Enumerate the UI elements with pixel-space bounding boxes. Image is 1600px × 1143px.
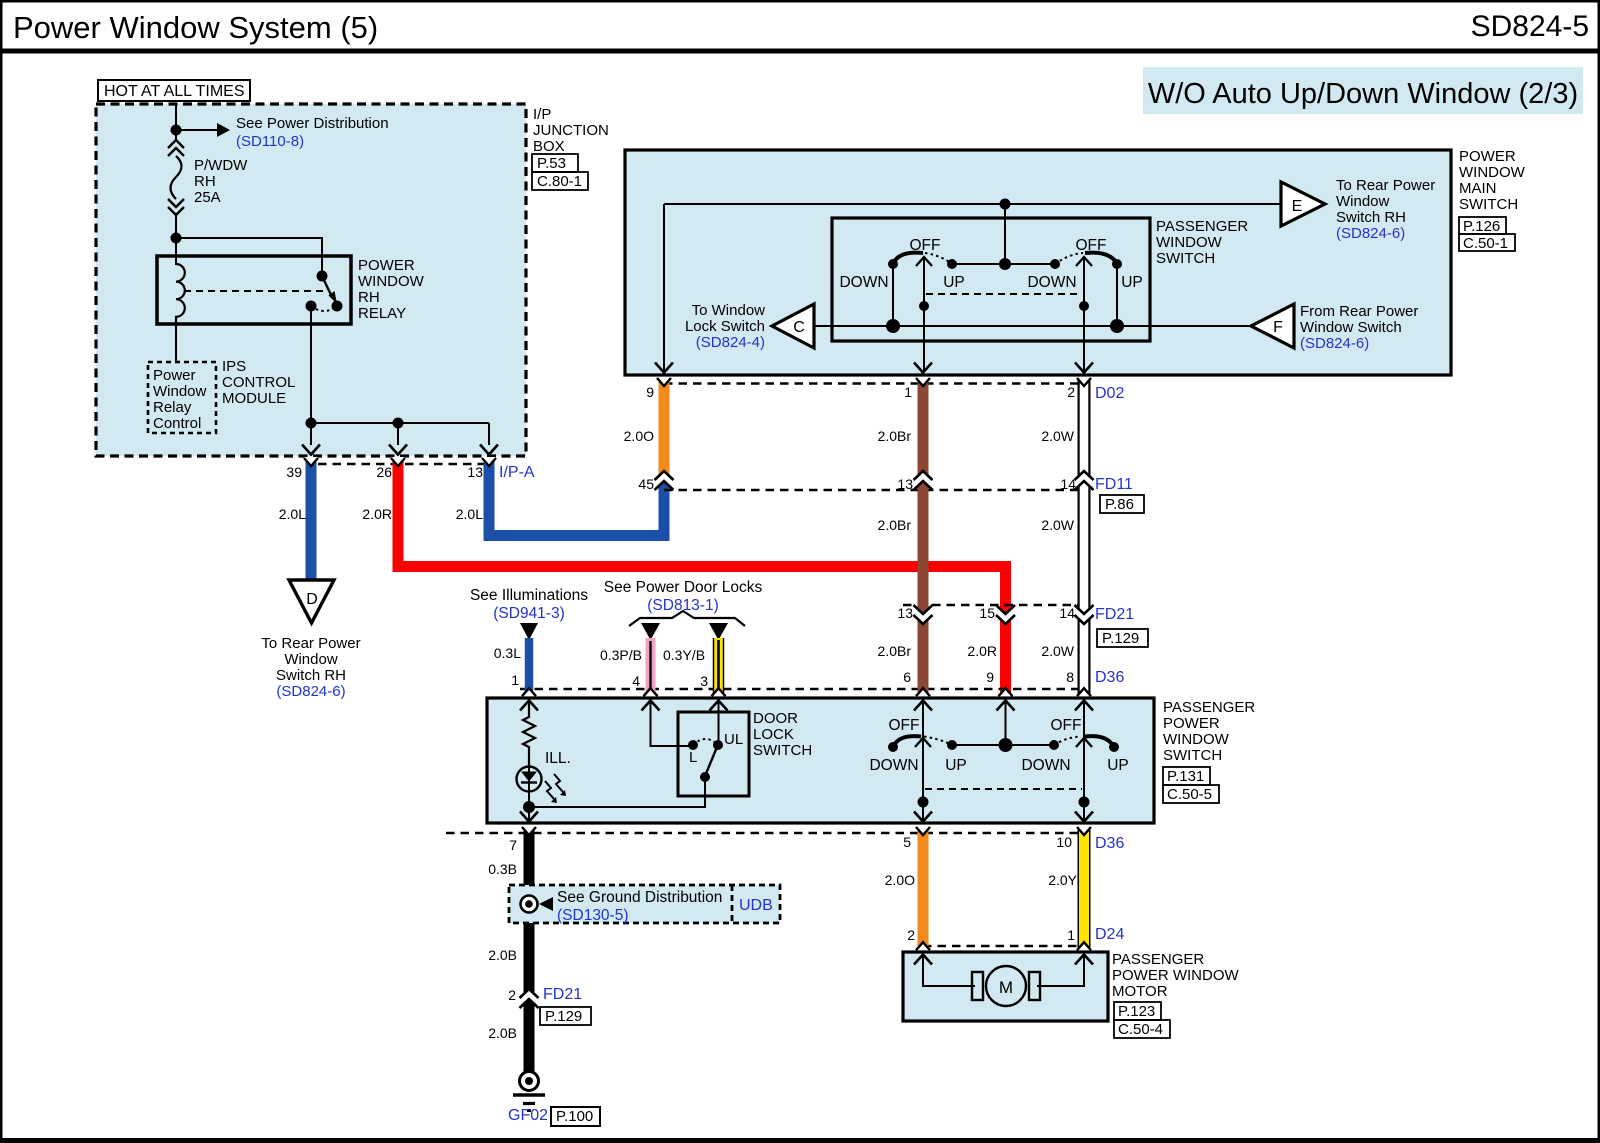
svg-text:PASSENGER: PASSENGER <box>1156 218 1248 235</box>
D02 exit notches <box>657 377 1091 386</box>
svg-text:1: 1 <box>511 672 519 688</box>
svg-text:RELAY: RELAY <box>358 305 406 322</box>
D36 upper entry notches <box>916 688 1091 697</box>
resistor (illumination dropping) <box>523 700 535 766</box>
lower box exit arrows pins 7 5 10 <box>520 812 1093 822</box>
wire 2.0Br pin1 (brown) <box>918 377 929 698</box>
svg-text:2.0Br: 2.0Br <box>878 517 912 533</box>
svg-text:C: C <box>793 319 805 336</box>
svg-text:13: 13 <box>897 605 913 621</box>
connector D02 dashed line <box>664 382 1084 384</box>
svg-text:2: 2 <box>907 927 915 943</box>
svg-text:(SD824-6): (SD824-6) <box>1300 335 1369 352</box>
svg-text:UDB: UDB <box>739 897 773 914</box>
connector I/P-A dashed line <box>318 463 494 465</box>
svg-text:MAIN: MAIN <box>1459 180 1497 197</box>
svg-text:WINDOW: WINDOW <box>1459 164 1526 181</box>
svg-text:0.3L: 0.3L <box>494 645 521 661</box>
svg-text:D02: D02 <box>1095 385 1124 402</box>
C-F through wire <box>814 325 1251 327</box>
svg-text:P.126: P.126 <box>1463 218 1500 235</box>
power window main switch box <box>625 150 1451 375</box>
wire from box top to fuse <box>175 104 177 140</box>
svg-text:POWER: POWER <box>358 257 415 274</box>
svg-text:LOCK: LOCK <box>753 726 794 743</box>
svg-text:See Power Door Locks: See Power Door Locks <box>604 579 763 596</box>
svg-text:To Window: To Window <box>692 302 766 319</box>
svg-text:Window Switch: Window Switch <box>1300 319 1402 336</box>
svg-text:1: 1 <box>1067 927 1075 943</box>
I/P junction box (dashed) <box>96 104 526 456</box>
svg-text:To Rear Power: To Rear Power <box>1336 177 1435 194</box>
see power distribution arrow <box>176 115 389 150</box>
svg-text:13: 13 <box>467 464 483 480</box>
svg-text:From Rear Power: From Rear Power <box>1300 303 1418 320</box>
entry arrows into switch box <box>520 701 1093 711</box>
svg-text:JUNCTION: JUNCTION <box>533 122 609 139</box>
svg-text:Switch RH: Switch RH <box>276 667 346 684</box>
notch at pin39 <box>304 457 318 466</box>
svg-text:2.0L: 2.0L <box>456 506 483 522</box>
svg-text:P.100: P.100 <box>556 1108 593 1125</box>
svg-text:0.3P/B: 0.3P/B <box>600 647 642 663</box>
svg-text:POWER: POWER <box>1459 148 1516 165</box>
svg-text:See Power Distribution: See Power Distribution <box>236 115 389 132</box>
motor entry chevron notches <box>916 942 1091 951</box>
svg-text:15: 15 <box>979 605 995 621</box>
svg-text:25A: 25A <box>194 189 221 206</box>
svg-text:OFF: OFF <box>910 237 941 254</box>
svg-text:P.86: P.86 <box>1105 496 1134 513</box>
connector D36 lower dashed line <box>446 832 1084 834</box>
svg-text:MOTOR: MOTOR <box>1112 983 1168 1000</box>
svg-text:(SD110-8): (SD110-8) <box>236 133 304 150</box>
svg-text:2.0W: 2.0W <box>1041 428 1074 444</box>
svg-text:7: 7 <box>509 837 517 853</box>
wire relay switch to outputs <box>311 306 489 445</box>
svg-text:0.3B: 0.3B <box>488 861 517 877</box>
door lock switch labels <box>689 710 812 766</box>
svg-text:1: 1 <box>904 384 912 400</box>
svg-text:L: L <box>689 749 697 766</box>
svg-text:WINDOW: WINDOW <box>358 273 425 290</box>
svg-text:CONTROL: CONTROL <box>222 374 295 391</box>
svg-text:UP: UP <box>945 757 967 774</box>
motor entry arrows <box>914 955 1093 965</box>
svg-text:DOWN: DOWN <box>1021 757 1070 774</box>
svg-text:P.53: P.53 <box>537 155 566 172</box>
fuse P/WDW RH 25A <box>168 140 248 215</box>
svg-text:UP: UP <box>943 274 965 291</box>
svg-text:UP: UP <box>1107 757 1129 774</box>
wire fuse to relay <box>175 215 177 265</box>
svg-text:(SD824-6): (SD824-6) <box>1336 225 1405 242</box>
svg-text:2.0L: 2.0L <box>279 506 306 522</box>
svg-text:2.0O: 2.0O <box>624 428 654 444</box>
svg-text:C.50-4: C.50-4 <box>1118 1021 1163 1038</box>
svg-text:9: 9 <box>986 669 994 685</box>
node junction dots on output bus <box>306 418 404 429</box>
svg-text:UP: UP <box>1121 274 1143 291</box>
svg-text:FD21: FD21 <box>543 986 582 1003</box>
svg-text:See Illuminations: See Illuminations <box>470 587 588 604</box>
wire labels between FD11 and FD21 <box>878 517 1075 533</box>
svg-text:(SD130-5): (SD130-5) <box>557 907 629 924</box>
svg-text:2.0B: 2.0B <box>488 947 517 963</box>
svg-text:OFF: OFF <box>1076 237 1107 254</box>
svg-text:2: 2 <box>508 987 516 1003</box>
svg-text:D36: D36 <box>1095 835 1124 852</box>
svg-text:PASSENGER: PASSENGER <box>1163 699 1255 716</box>
svg-text:RH: RH <box>194 173 216 190</box>
relay U1 box POWER WINDOW RH RELAY <box>157 256 425 324</box>
svg-text:F: F <box>1273 319 1283 336</box>
connector FD21 dashed line <box>903 604 1084 606</box>
svg-text:SWITCH: SWITCH <box>1163 747 1222 764</box>
connector FD11 dashed line <box>664 489 1084 491</box>
svg-text:Control: Control <box>153 415 201 432</box>
FD21 inline connector on black wire <box>488 947 591 1041</box>
passenger power window motor box <box>903 952 1108 1021</box>
svg-text:P.129: P.129 <box>1102 630 1139 647</box>
svg-text:13: 13 <box>897 476 913 492</box>
svg-text:2.0Y: 2.0Y <box>1048 872 1077 888</box>
connector F triangle from rear power window switch <box>1251 303 1418 352</box>
FD21 labels <box>878 605 1148 659</box>
svg-text:To Rear Power: To Rear Power <box>261 635 360 652</box>
D02 labels <box>624 384 1125 444</box>
svg-text:5: 5 <box>903 834 911 850</box>
svg-text:OFF: OFF <box>889 717 920 734</box>
svg-text:9: 9 <box>646 384 654 400</box>
main box exit arrows pins 9 1 2 <box>655 363 1093 373</box>
ground GF02 <box>508 1072 600 1127</box>
svg-text:2.0R: 2.0R <box>362 506 392 522</box>
svg-text:DOOR: DOOR <box>753 710 798 727</box>
svg-text:P/WDW: P/WDW <box>194 157 248 174</box>
motor outer label <box>1112 951 1239 1038</box>
node junction dot below fuse <box>171 233 182 244</box>
connector D24 dashed line <box>923 945 1084 947</box>
switch labels main <box>839 218 1248 291</box>
svg-text:C.50-5: C.50-5 <box>1167 786 1212 803</box>
door lock switch contacts <box>688 739 723 782</box>
svg-text:See Ground Distribution: See Ground Distribution <box>557 889 722 906</box>
lower window switch SW3 left <box>888 700 957 820</box>
wire 0.3B/2.0B (black to ground) <box>524 826 535 1072</box>
wire branch to relay switch <box>176 238 322 271</box>
svg-text:UL: UL <box>724 731 743 748</box>
svg-text:2.0Br: 2.0Br <box>878 643 912 659</box>
ILL label <box>545 750 571 767</box>
svg-text:GF02: GF02 <box>508 1107 548 1124</box>
svg-text:2.0B: 2.0B <box>488 1025 517 1041</box>
svg-text:P.129: P.129 <box>545 1008 582 1025</box>
svg-text:OFF: OFF <box>1051 717 1082 734</box>
svg-text:2.0O: 2.0O <box>885 872 915 888</box>
wire LED to door lock switch common <box>529 779 705 807</box>
svg-text:FD11: FD11 <box>1095 476 1133 493</box>
LED lamp symbol <box>517 766 542 801</box>
svg-text:POWER WINDOW: POWER WINDOW <box>1112 967 1239 984</box>
svg-text:I/P: I/P <box>533 106 551 123</box>
ground distribution tap circle <box>521 896 554 913</box>
wire 0.3P/B (pink with black stripe) <box>646 638 656 698</box>
D36 upper labels <box>903 669 1124 686</box>
svg-text:BOX: BOX <box>533 138 565 155</box>
svg-text:M: M <box>999 978 1013 997</box>
FD21 chevron joins <box>914 605 1094 624</box>
wire 2.0L pin13 (blue) <box>489 457 664 536</box>
svg-text:2: 2 <box>1067 384 1075 400</box>
svg-text:39: 39 <box>286 464 302 480</box>
node dot on feed wire <box>1000 199 1011 210</box>
svg-text:WINDOW: WINDOW <box>1156 234 1223 251</box>
FD11 labels <box>638 476 1144 513</box>
connector C triangle to window lock switch <box>685 302 814 351</box>
notch at pin26 <box>391 457 405 466</box>
svg-text:Window: Window <box>153 383 207 400</box>
svg-text:Window: Window <box>284 651 338 668</box>
IPS control module dashed box <box>148 358 295 433</box>
svg-text:2.0Br: 2.0Br <box>878 428 912 444</box>
switch SW1 left (main) <box>886 253 957 372</box>
svg-text:Power: Power <box>153 367 196 384</box>
svg-text:ILL.: ILL. <box>545 750 571 767</box>
title text <box>13 10 1589 45</box>
relay coil <box>176 264 185 324</box>
HOT AT ALL TIMES label <box>98 80 250 101</box>
svg-text:SD824-5: SD824-5 <box>1471 10 1589 43</box>
svg-text:FD21: FD21 <box>1095 606 1134 623</box>
yellow feed to UL contact <box>718 700 720 741</box>
relay mechanical link (dashed) <box>184 290 326 292</box>
main switch feed wire to E <box>664 204 1281 372</box>
lower mechanical gang link (dashed) <box>925 788 1082 790</box>
svg-text:C.80-1: C.80-1 <box>537 173 582 190</box>
svg-text:14: 14 <box>1060 476 1076 492</box>
thin wire entry notches at D36 <box>522 688 726 697</box>
svg-text:E: E <box>1292 198 1303 215</box>
feed drop to switch center <box>1004 204 1006 264</box>
power window main switch outer label <box>1459 148 1526 252</box>
wire coil to IPS control module <box>175 324 177 362</box>
svg-text:HOT AT ALL TIMES: HOT AT ALL TIMES <box>104 83 245 100</box>
svg-text:8: 8 <box>1066 669 1074 685</box>
passenger power window switch box <box>487 698 1154 823</box>
svg-text:45: 45 <box>638 476 654 492</box>
door lock switch box <box>678 712 749 796</box>
thin wire labels <box>494 645 708 689</box>
svg-text:DOWN: DOWN <box>1027 274 1076 291</box>
svg-text:Window: Window <box>1336 193 1390 210</box>
UDB see ground distribution box <box>509 885 780 924</box>
motor M1 symbol <box>923 954 1084 1006</box>
wire 2.0O pin5 (orange to motor) <box>918 826 929 952</box>
D36 lower labels <box>488 834 1124 888</box>
svg-text:P.131: P.131 <box>1167 768 1204 785</box>
I/P junction box labels <box>532 106 609 190</box>
svg-text:2.0W: 2.0W <box>1041 643 1074 659</box>
svg-text:D24: D24 <box>1095 926 1124 943</box>
illumination flash arrows <box>545 774 566 803</box>
svg-text:I/P-A: I/P-A <box>499 464 535 481</box>
svg-text:DOWN: DOWN <box>869 757 918 774</box>
lower switch labels <box>869 717 1128 774</box>
wire 2.0L pin39 (blue) <box>306 457 317 581</box>
exit arrows pins 39 26 13 <box>302 445 498 455</box>
svg-text:Switch RH: Switch RH <box>1336 209 1406 226</box>
banner W/O Auto Up/Down Window <box>1143 67 1583 114</box>
svg-text:Relay: Relay <box>153 399 192 416</box>
svg-text:P.123: P.123 <box>1118 1003 1155 1020</box>
node dot below LED <box>523 801 535 813</box>
svg-text:6: 6 <box>903 669 911 685</box>
svg-text:2.0W: 2.0W <box>1041 517 1074 533</box>
see power door locks arrows and brace <box>604 579 763 640</box>
svg-text:SWITCH: SWITCH <box>1156 250 1215 267</box>
svg-text:C.50-1: C.50-1 <box>1463 235 1508 252</box>
svg-text:(SD941-3): (SD941-3) <box>493 605 565 622</box>
wire 2.0Y pin10 (yellow to motor) <box>1078 826 1091 952</box>
wire 0.3L (blue) <box>525 638 534 698</box>
relay switch contacts <box>306 271 343 312</box>
svg-text:4: 4 <box>632 673 640 689</box>
connector D36 upper dashed line <box>520 688 1084 690</box>
svg-text:W/O Auto Up/Down Window (2/3): W/O Auto Up/Down Window (2/3) <box>1148 78 1578 110</box>
connector E triangle to rear power window switch RH <box>1281 177 1435 242</box>
svg-text:WINDOW: WINDOW <box>1163 731 1230 748</box>
svg-text:DOWN: DOWN <box>839 274 888 291</box>
svg-text:IPS: IPS <box>222 358 246 375</box>
pink feed to L contact <box>651 700 692 746</box>
passenger power window switch outer label <box>1163 699 1255 803</box>
wire 2.0R pin26 (red) <box>398 457 1006 700</box>
svg-text:(SD824-4): (SD824-4) <box>696 334 765 351</box>
svg-text:3: 3 <box>700 673 708 689</box>
wire 2.0O pin9 (orange) <box>659 377 670 482</box>
svg-text:26: 26 <box>376 464 392 480</box>
svg-text:D36: D36 <box>1095 669 1124 686</box>
svg-text:POWER: POWER <box>1163 715 1220 732</box>
svg-text:D: D <box>306 591 318 608</box>
node junction dot at fuse feed <box>171 125 182 136</box>
svg-text:Power Window System (5): Power Window System (5) <box>13 10 378 45</box>
D24 labels <box>907 926 1124 943</box>
svg-text:0.3Y/B: 0.3Y/B <box>663 647 705 663</box>
wire 0.3Y/B (yellow with black stripe) <box>713 638 725 698</box>
wire 2.0W pin2 (white) <box>1078 377 1091 698</box>
mechanical gang link (dashed) <box>926 293 1082 295</box>
notch at pin13 <box>482 457 496 466</box>
svg-text:RH: RH <box>358 289 380 306</box>
svg-text:PASSENGER: PASSENGER <box>1112 951 1204 968</box>
connector I/P-A labels <box>279 464 535 522</box>
see illuminations arrow <box>470 587 588 640</box>
svg-text:SWITCH: SWITCH <box>753 742 812 759</box>
switch SW2 right (main) <box>952 253 1124 372</box>
FD11 chevron joins <box>655 471 1094 490</box>
svg-text:2.0R: 2.0R <box>967 643 997 659</box>
lower window switch SW4 right <box>952 700 1119 820</box>
svg-text:SWITCH: SWITCH <box>1459 196 1518 213</box>
svg-text:14: 14 <box>1059 605 1075 621</box>
passenger window switch inner box <box>832 218 1150 341</box>
wire LED node to pin7 <box>528 807 530 820</box>
D36 lower exit notches <box>522 826 1091 835</box>
svg-text:Lock Switch: Lock Switch <box>685 318 765 335</box>
svg-text:(SD824-6): (SD824-6) <box>276 683 345 700</box>
connector D to rear power window switch RH <box>261 580 360 700</box>
svg-text:10: 10 <box>1056 834 1072 850</box>
svg-text:MODULE: MODULE <box>222 390 286 407</box>
